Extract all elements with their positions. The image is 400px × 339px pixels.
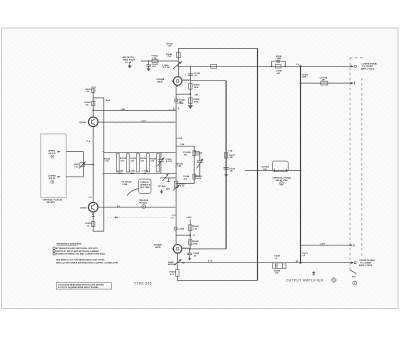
- ground (supply input): [128, 63, 132, 68]
- wire bottom tie bar: [93, 230, 104, 232]
- node bus junctions: [102, 151, 104, 175]
- wire divider loop: [176, 146, 195, 183]
- neon B1065: [174, 227, 185, 231]
- svg-text:B+B: B+B: [106, 100, 111, 102]
- svg-text:+SIG IN: +SIG IN: [48, 153, 56, 155]
- svg-text:AND (+) FOR POWER DISTRIBUTION: AND (+) FOR POWER DISTRIBUTION & SUPPLY …: [56, 261, 118, 264]
- svg-text:Q1054: Q1054: [80, 206, 87, 209]
- wire cathode tap: [176, 93, 190, 95]
- panel dashed line 2: [361, 78, 363, 257]
- capacitor C1063: [183, 151, 196, 157]
- connector arrow +45V: [353, 244, 355, 247]
- connector arrow R1069 line: [351, 82, 355, 85]
- node +45V decoupled: [122, 56, 136, 64]
- resistor R1043 label: [167, 42, 174, 47]
- wire right feedback loop: [225, 81, 227, 249]
- wire Q1024 collector: [92, 88, 94, 117]
- resistor R1045: [189, 83, 201, 89]
- svg-text:1M: 1M: [230, 171, 233, 173]
- ground R1046: [188, 106, 193, 109]
- resistor R1049 label: [104, 157, 111, 162]
- capacitor C1064 lower: [183, 174, 196, 180]
- svg-text:LINE: LINE: [123, 184, 128, 186]
- wire upper grid line: [93, 110, 175, 112]
- resistor R1065b: [189, 225, 200, 231]
- wire input bracket: [83, 152, 85, 177]
- wire -0.8 tap: [176, 234, 196, 237]
- wire -input: [66, 176, 83, 178]
- resistor R1065: [177, 163, 184, 167]
- inductor L1045 peaking coil: [182, 80, 190, 81]
- resistor R1055: [157, 154, 160, 172]
- svg-text:1.5A: 1.5A: [121, 108, 126, 111]
- svg-text:+.45V: +.45V: [320, 242, 326, 245]
- ground C1041: [147, 68, 151, 71]
- svg-text:TYPE 545: TYPE 545: [134, 282, 152, 286]
- resistor R1046: [189, 98, 201, 104]
- resistor R1042: [166, 52, 180, 58]
- node x.8 label: [171, 215, 177, 219]
- connector arrow output line: [351, 259, 376, 267]
- resistor R1023: [86, 89, 95, 93]
- test point symbol: [312, 271, 315, 275]
- wire Q1024 output: [98, 121, 176, 123]
- resistor R1053: [137, 154, 149, 175]
- node C1073 label: [302, 253, 309, 257]
- svg-text:+1.5A: +1.5A: [176, 137, 182, 140]
- capacitor C1070 on loop: [224, 168, 236, 178]
- wire pot arm to Q column: [84, 164, 93, 166]
- capacitor C1069: [184, 249, 200, 261]
- wire plate run to right loop: [190, 80, 226, 82]
- svg-text:ADJUST: ADJUST: [168, 263, 177, 266]
- capacitor C1066 trimmer: [194, 151, 203, 180]
- wire Q1054 output: [98, 206, 176, 208]
- wire +45V take-off: [301, 242, 354, 246]
- wire interstage main line: [175, 85, 177, 244]
- wire +45V supply bus: [141, 60, 178, 62]
- wire plate to loop bottom: [190, 248, 227, 250]
- svg-text:V1034A: V1034A: [156, 78, 164, 81]
- wire output line lower: [177, 262, 351, 264]
- resistor R1047 on rail: [211, 64, 217, 68]
- vertical plug-in receptacle box: [41, 134, 66, 198]
- svg-text:AMPL PLATE: AMPL PLATE: [359, 264, 373, 267]
- svg-text:ATTENUATOR AND SWITCHING CIRCU: ATTENUATOR AND SWITCHING CIRCUITS: [56, 247, 99, 250]
- resistor R1024: [84, 101, 95, 106]
- node output signal connector: [139, 200, 149, 208]
- svg-text:6DJ8: 6DJ8: [155, 247, 161, 249]
- wire attenuator top bus: [104, 151, 176, 153]
- voltage measurement note box: [56, 283, 111, 290]
- svg-text:1M: 1M: [322, 80, 325, 82]
- resistor R1069: [320, 77, 328, 85]
- svg-text:VERTICAL INPUT AMP NETWORK CAB: VERTICAL INPUT AMP NETWORK CABINET: [56, 250, 100, 253]
- svg-text:BY 50 KC SQUARE WAVE INPUT SIG: BY 50 KC SQUARE WAVE INPUT SIGNAL: [58, 286, 99, 289]
- svg-text:SIGNAL: SIGNAL: [139, 202, 148, 205]
- svg-text:x.5A: x.5A: [228, 150, 233, 153]
- svg-text:DLY LINE: DLY LINE: [140, 187, 150, 189]
- svg-text:180k: 180k: [277, 58, 282, 60]
- capacitor C1062 trimmer: [158, 152, 173, 173]
- resistor R1054: [147, 154, 157, 172]
- wire plate load column: [189, 66, 191, 105]
- svg-text:AMPL PLATE: AMPL PLATE: [361, 67, 375, 70]
- tube V1034A: [156, 77, 182, 89]
- wire attenuator bottom bus: [104, 172, 176, 174]
- connector P11 breakaway: [350, 270, 357, 285]
- svg-text:TO +B: TO +B: [125, 62, 132, 64]
- svg-text:6DJ8: 6DJ8: [157, 81, 163, 83]
- svg-text:x1065: x1065: [178, 229, 185, 231]
- node 1.8 junction: [296, 64, 302, 67]
- note to delay line: [122, 181, 133, 186]
- socket pins V1034: [173, 108, 179, 111]
- svg-text:Q1024: Q1024: [79, 121, 86, 124]
- inductor L1043 variable arrow: [163, 61, 182, 69]
- svg-text:1.5A: 1.5A: [152, 57, 157, 60]
- transistor Q1024: [79, 117, 98, 127]
- delay line note box: [127, 179, 151, 196]
- wire R1065 column: [189, 219, 191, 249]
- svg-text:W 1.5A: W 1.5A: [163, 66, 170, 69]
- svg-text:C1048: C1048: [177, 102, 184, 105]
- svg-text:VOLTAGES MEASURED WITH SCOPE D: VOLTAGES MEASURED WITH SCOPE DRIVEN: [58, 283, 104, 286]
- resistor R1068: [189, 240, 200, 246]
- node 90 junction: [296, 261, 302, 264]
- connector arrow upper rail: [351, 63, 379, 71]
- transistor Q1054: [80, 202, 98, 212]
- resistor R1071 on loop: [224, 150, 236, 160]
- wire B+ branch: [93, 98, 104, 231]
- svg-text:4.5-25: 4.5-25: [166, 160, 173, 163]
- resistor R1056: [85, 214, 95, 227]
- svg-text:+60V: +60V: [186, 217, 192, 219]
- wire Q1054 emitter: [92, 212, 94, 231]
- svg-text:POWER DISTRIBUTION AND CONNECT: POWER DISTRIBUTION AND CONNECTORS DIAG: [56, 253, 106, 256]
- resistor R1067: [173, 181, 187, 190]
- fuse F1040: [152, 55, 159, 63]
- wire emitter chain: [92, 127, 94, 203]
- mechanical linkage dashed: [108, 216, 167, 218]
- node -input sig: [48, 176, 61, 184]
- svg-text:ADJ: ADJ: [166, 187, 170, 190]
- svg-text:OUTPUT AMPLIFIER: OUTPUT AMPLIFIER: [286, 279, 324, 283]
- neon B1044: [175, 98, 186, 103]
- svg-text:V1034B: V1034B: [154, 244, 162, 247]
- node +input sig: [48, 151, 61, 159]
- wire upper connector line: [301, 82, 352, 84]
- wire plate bridge B+: [178, 48, 257, 77]
- capacitor C1041: [146, 60, 159, 68]
- svg-text:1M: 1M: [184, 154, 187, 156]
- schematic number diamond: [332, 278, 337, 283]
- svg-text:1.5A: 1.5A: [180, 143, 185, 146]
- reference drawings note: [53, 243, 119, 265]
- wire main right vertical: [300, 66, 302, 262]
- resistor R1052: [126, 154, 136, 175]
- wire cathode return loop: [177, 276, 257, 280]
- panel dashed line 1: [350, 58, 363, 270]
- svg-text:WM: WM: [302, 77, 306, 79]
- delay line DL1060: [245, 161, 301, 185]
- svg-text:RECEPT: RECEPT: [47, 202, 56, 204]
- wire main top rail to connector: [178, 65, 351, 67]
- capacitor C1045: [185, 72, 201, 77]
- resistor R1061 with bypass: [271, 56, 286, 75]
- wire +input: [66, 151, 83, 153]
- svg-text:1M: 1M: [230, 157, 233, 159]
- svg-text:-11.8: -11.8: [141, 121, 147, 123]
- resistor R1062 label: [302, 74, 309, 78]
- ground note box: [160, 189, 163, 194]
- resistor R1066: [169, 270, 179, 277]
- svg-text:SEE PARTS LIST FOR SEMICONDUCT: SEE PARTS LIST FOR SEMICONDUCTOR TYPES: [56, 258, 105, 261]
- inductor L1068 coil: [182, 247, 189, 250]
- potentiometer R1021 GAIN: [74, 162, 86, 169]
- potentiometer LEAK ADJ: [168, 253, 182, 270]
- tube V1034B: [154, 244, 183, 255]
- resistor R1050: [116, 154, 126, 175]
- capacitor C1090 parallel R1090: [273, 256, 286, 275]
- potentiometer DC BAL: [158, 174, 176, 191]
- svg-text:-SIG IN: -SIG IN: [48, 178, 56, 180]
